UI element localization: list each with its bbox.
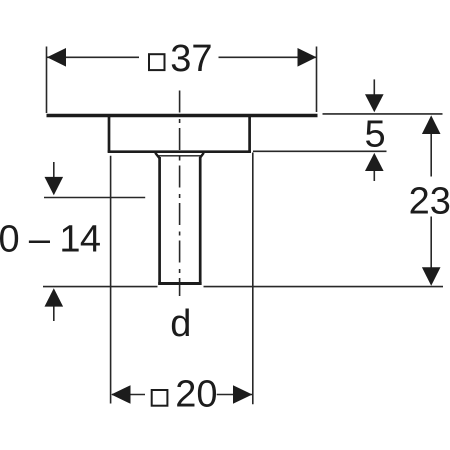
svg-text:d: d bbox=[170, 303, 191, 345]
svg-text:5: 5 bbox=[365, 114, 386, 156]
svg-text:0 – 14: 0 – 14 bbox=[0, 219, 101, 261]
svg-text:37: 37 bbox=[170, 38, 212, 80]
svg-text:20: 20 bbox=[175, 374, 217, 416]
svg-text:23: 23 bbox=[409, 180, 450, 222]
